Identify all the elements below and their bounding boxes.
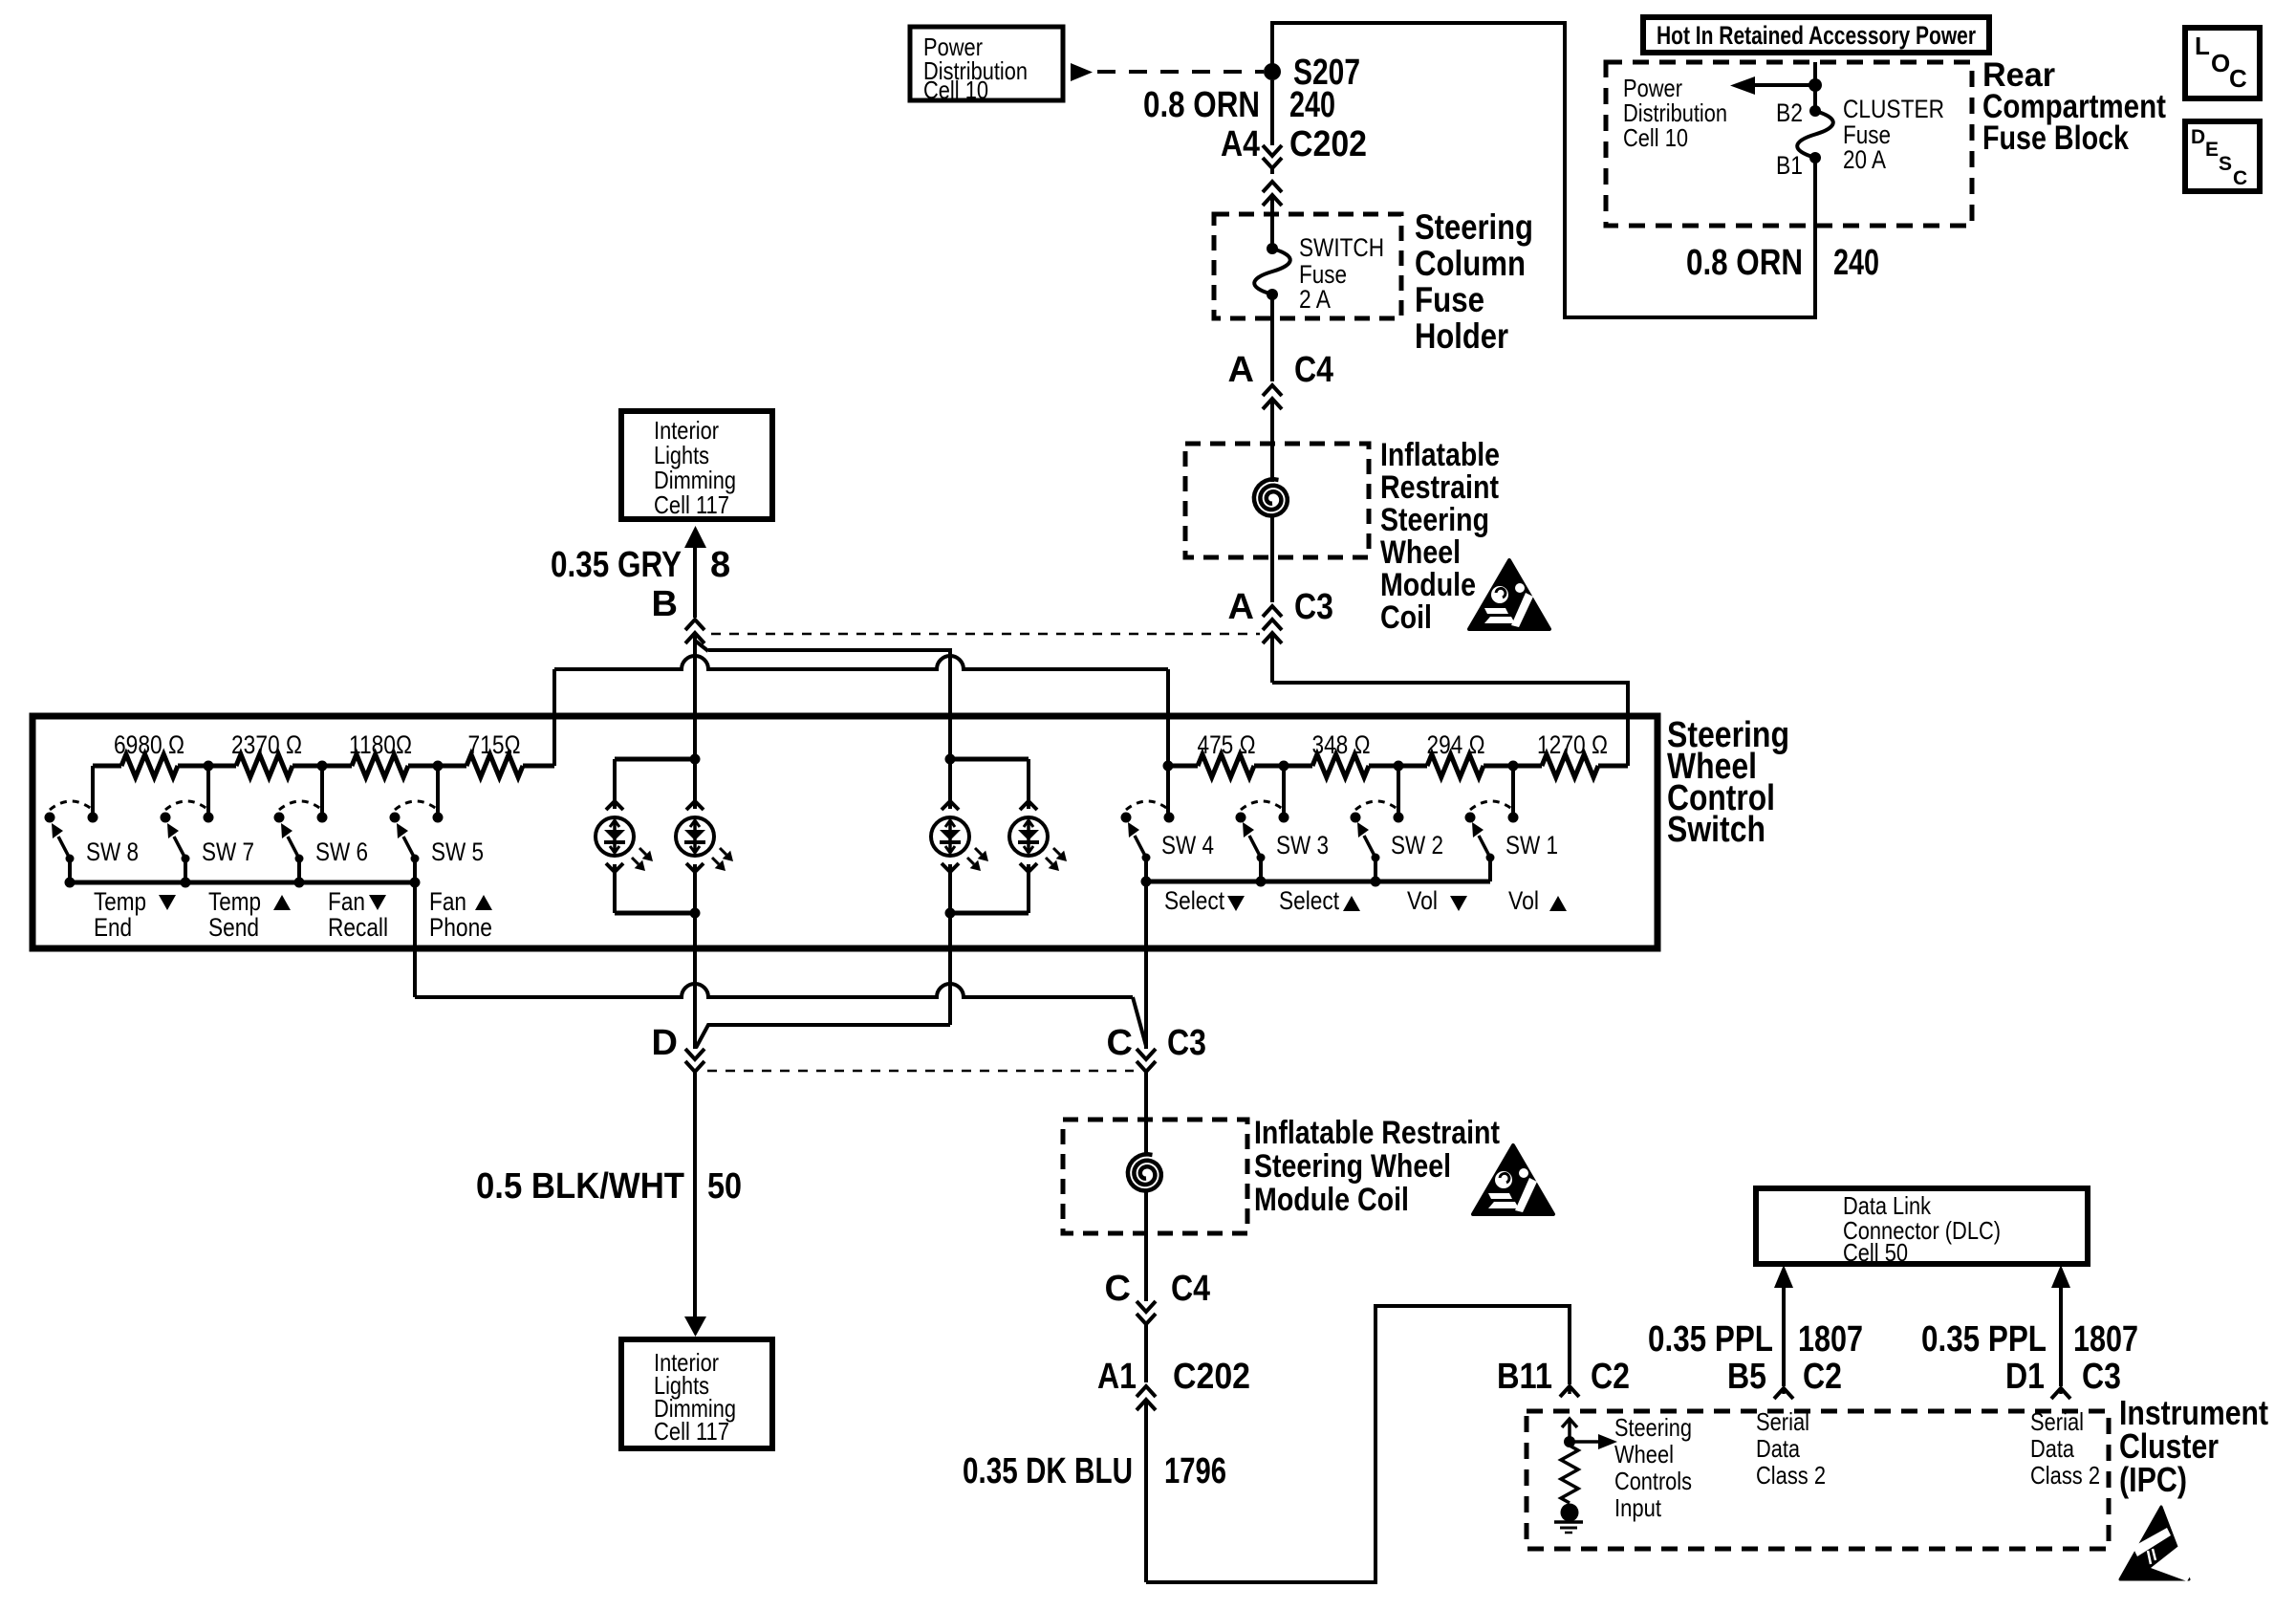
svg-text:Steering Wheel: Steering Wheel xyxy=(1254,1148,1451,1185)
svg-text:Temp: Temp xyxy=(208,887,261,916)
svg-text:715Ω: 715Ω xyxy=(468,730,521,759)
svg-text:A1: A1 xyxy=(1097,1357,1137,1397)
svg-text:Wheel: Wheel xyxy=(1380,534,1461,571)
svg-text:Cell 50: Cell 50 xyxy=(1843,1238,1908,1267)
svg-text:B1: B1 xyxy=(1776,151,1803,180)
svg-text:Cell 117: Cell 117 xyxy=(654,1417,729,1446)
svg-text:Recall: Recall xyxy=(328,913,388,942)
svg-text:8: 8 xyxy=(710,545,730,585)
svg-text:SW 2: SW 2 xyxy=(1391,831,1443,859)
svg-text:C3: C3 xyxy=(2082,1357,2121,1397)
svg-text:50: 50 xyxy=(707,1166,742,1207)
svg-text:D: D xyxy=(2191,126,2205,148)
svg-text:C2: C2 xyxy=(1803,1357,1842,1397)
svg-text:C: C xyxy=(2229,64,2247,93)
svg-text:Serial: Serial xyxy=(1756,1407,1809,1436)
svg-text:E: E xyxy=(2205,139,2219,161)
svg-text:240: 240 xyxy=(1833,243,1879,283)
svg-text:0.35 DK BLU: 0.35 DK BLU xyxy=(963,1451,1133,1491)
svg-text:Temp: Temp xyxy=(94,887,146,916)
svg-text:O: O xyxy=(2211,49,2230,77)
svg-text:0.8 ORN: 0.8 ORN xyxy=(1686,243,1803,283)
svg-text:Steering: Steering xyxy=(1614,1413,1692,1442)
svg-text:SW 8: SW 8 xyxy=(86,838,139,866)
svg-text:Select: Select xyxy=(1279,886,1339,915)
svg-text:Input: Input xyxy=(1614,1493,1662,1522)
svg-text:Select: Select xyxy=(1164,886,1224,915)
svg-text:D: D xyxy=(652,1023,678,1063)
svg-text:Vol: Vol xyxy=(1508,886,1539,915)
svg-text:2370 Ω: 2370 Ω xyxy=(231,730,302,759)
svg-text:1796: 1796 xyxy=(1164,1451,1226,1491)
svg-text:Wheel: Wheel xyxy=(1614,1440,1674,1469)
svg-text:B5: B5 xyxy=(1727,1357,1766,1397)
svg-text:Fuse: Fuse xyxy=(1415,280,1484,319)
svg-text:Fan: Fan xyxy=(429,887,466,916)
svg-text:294 Ω: 294 Ω xyxy=(1427,730,1485,759)
svg-text:S: S xyxy=(2219,153,2232,175)
svg-text:0.35 GRY: 0.35 GRY xyxy=(551,545,682,585)
svg-text:Class 2: Class 2 xyxy=(2030,1461,2100,1490)
svg-text:SW 1: SW 1 xyxy=(1505,831,1558,859)
svg-text:C3: C3 xyxy=(1167,1023,1206,1063)
svg-text:Phone: Phone xyxy=(429,913,492,942)
svg-text:1807: 1807 xyxy=(1798,1319,1863,1360)
svg-text:0.35 PPL: 0.35 PPL xyxy=(1921,1319,2047,1360)
svg-text:A: A xyxy=(1228,587,1254,627)
svg-text:Hot In Retained Accessory Powe: Hot In Retained Accessory Power xyxy=(1657,21,1976,50)
svg-text:C3: C3 xyxy=(1294,587,1333,627)
svg-text:Controls: Controls xyxy=(1614,1467,1692,1495)
svg-text:Cell 10: Cell 10 xyxy=(923,76,988,104)
svg-text:1270 Ω: 1270 Ω xyxy=(1537,730,1608,759)
svg-text:Send: Send xyxy=(208,913,259,942)
svg-text:A: A xyxy=(1228,350,1254,390)
svg-text:Inflatable: Inflatable xyxy=(1380,437,1500,473)
svg-text:B11: B11 xyxy=(1497,1357,1552,1397)
svg-text:Class 2: Class 2 xyxy=(1756,1461,1826,1490)
svg-text:240: 240 xyxy=(1289,85,1335,125)
svg-text:Fuse Block: Fuse Block xyxy=(1982,120,2129,157)
svg-text:1180Ω: 1180Ω xyxy=(349,730,412,759)
svg-text:End: End xyxy=(94,913,132,942)
svg-text:SW 6: SW 6 xyxy=(315,838,368,866)
svg-text:SW 4: SW 4 xyxy=(1161,831,1214,859)
svg-text:C: C xyxy=(1105,1269,1131,1309)
svg-text:Cell 10: Cell 10 xyxy=(1623,123,1688,152)
svg-text:C202: C202 xyxy=(1289,124,1367,164)
svg-text:2 A: 2 A xyxy=(1299,285,1331,314)
svg-text:SW 3: SW 3 xyxy=(1276,831,1329,859)
svg-text:0.5 BLK/WHT: 0.5 BLK/WHT xyxy=(476,1166,684,1207)
svg-text:B: B xyxy=(652,584,678,624)
svg-text:C2: C2 xyxy=(1591,1357,1630,1397)
svg-text:Serial: Serial xyxy=(2030,1407,2084,1436)
svg-text:Steering: Steering xyxy=(1415,207,1533,247)
svg-text:C: C xyxy=(2233,167,2247,189)
svg-text:Column: Column xyxy=(1415,244,1526,283)
svg-text:Cell 117: Cell 117 xyxy=(654,490,729,519)
svg-text:348 Ω: 348 Ω xyxy=(1312,730,1371,759)
svg-text:SW 5: SW 5 xyxy=(431,838,484,866)
svg-text:Vol: Vol xyxy=(1407,886,1438,915)
svg-text:C202: C202 xyxy=(1173,1357,1250,1397)
svg-text:Data: Data xyxy=(2030,1434,2074,1463)
svg-text:Data: Data xyxy=(1756,1434,1800,1463)
svg-text:SW 7: SW 7 xyxy=(202,838,254,866)
svg-text:SWITCH: SWITCH xyxy=(1299,233,1384,262)
svg-text:C: C xyxy=(1107,1023,1133,1063)
svg-text:Restraint: Restraint xyxy=(1380,469,1499,506)
svg-text:D1: D1 xyxy=(2005,1357,2045,1397)
svg-text:(IPC): (IPC) xyxy=(2119,1460,2187,1499)
svg-text:475 Ω: 475 Ω xyxy=(1198,730,1256,759)
svg-text:Steering: Steering xyxy=(1380,502,1489,538)
svg-text:Fan: Fan xyxy=(328,887,365,916)
svg-text:Holder: Holder xyxy=(1415,316,1508,356)
svg-text:Module Coil: Module Coil xyxy=(1254,1182,1409,1218)
svg-text:L: L xyxy=(2195,32,2210,60)
svg-text:Switch: Switch xyxy=(1667,810,1765,850)
svg-text:Module: Module xyxy=(1380,567,1476,603)
svg-text:A4: A4 xyxy=(1221,124,1260,164)
svg-text:20 A: 20 A xyxy=(1843,145,1886,174)
svg-text:CLUSTER: CLUSTER xyxy=(1843,95,1944,123)
svg-text:B2: B2 xyxy=(1776,98,1803,127)
svg-text:6980 Ω: 6980 Ω xyxy=(114,730,184,759)
svg-text:Coil: Coil xyxy=(1380,599,1432,636)
svg-text:Inflatable Restraint: Inflatable Restraint xyxy=(1254,1115,1500,1151)
svg-text:0.35 PPL: 0.35 PPL xyxy=(1648,1319,1773,1360)
svg-text:0.8 ORN: 0.8 ORN xyxy=(1143,85,1260,125)
svg-text:1807: 1807 xyxy=(2073,1319,2138,1360)
svg-text:C4: C4 xyxy=(1294,350,1333,390)
svg-text:C4: C4 xyxy=(1171,1269,1210,1309)
